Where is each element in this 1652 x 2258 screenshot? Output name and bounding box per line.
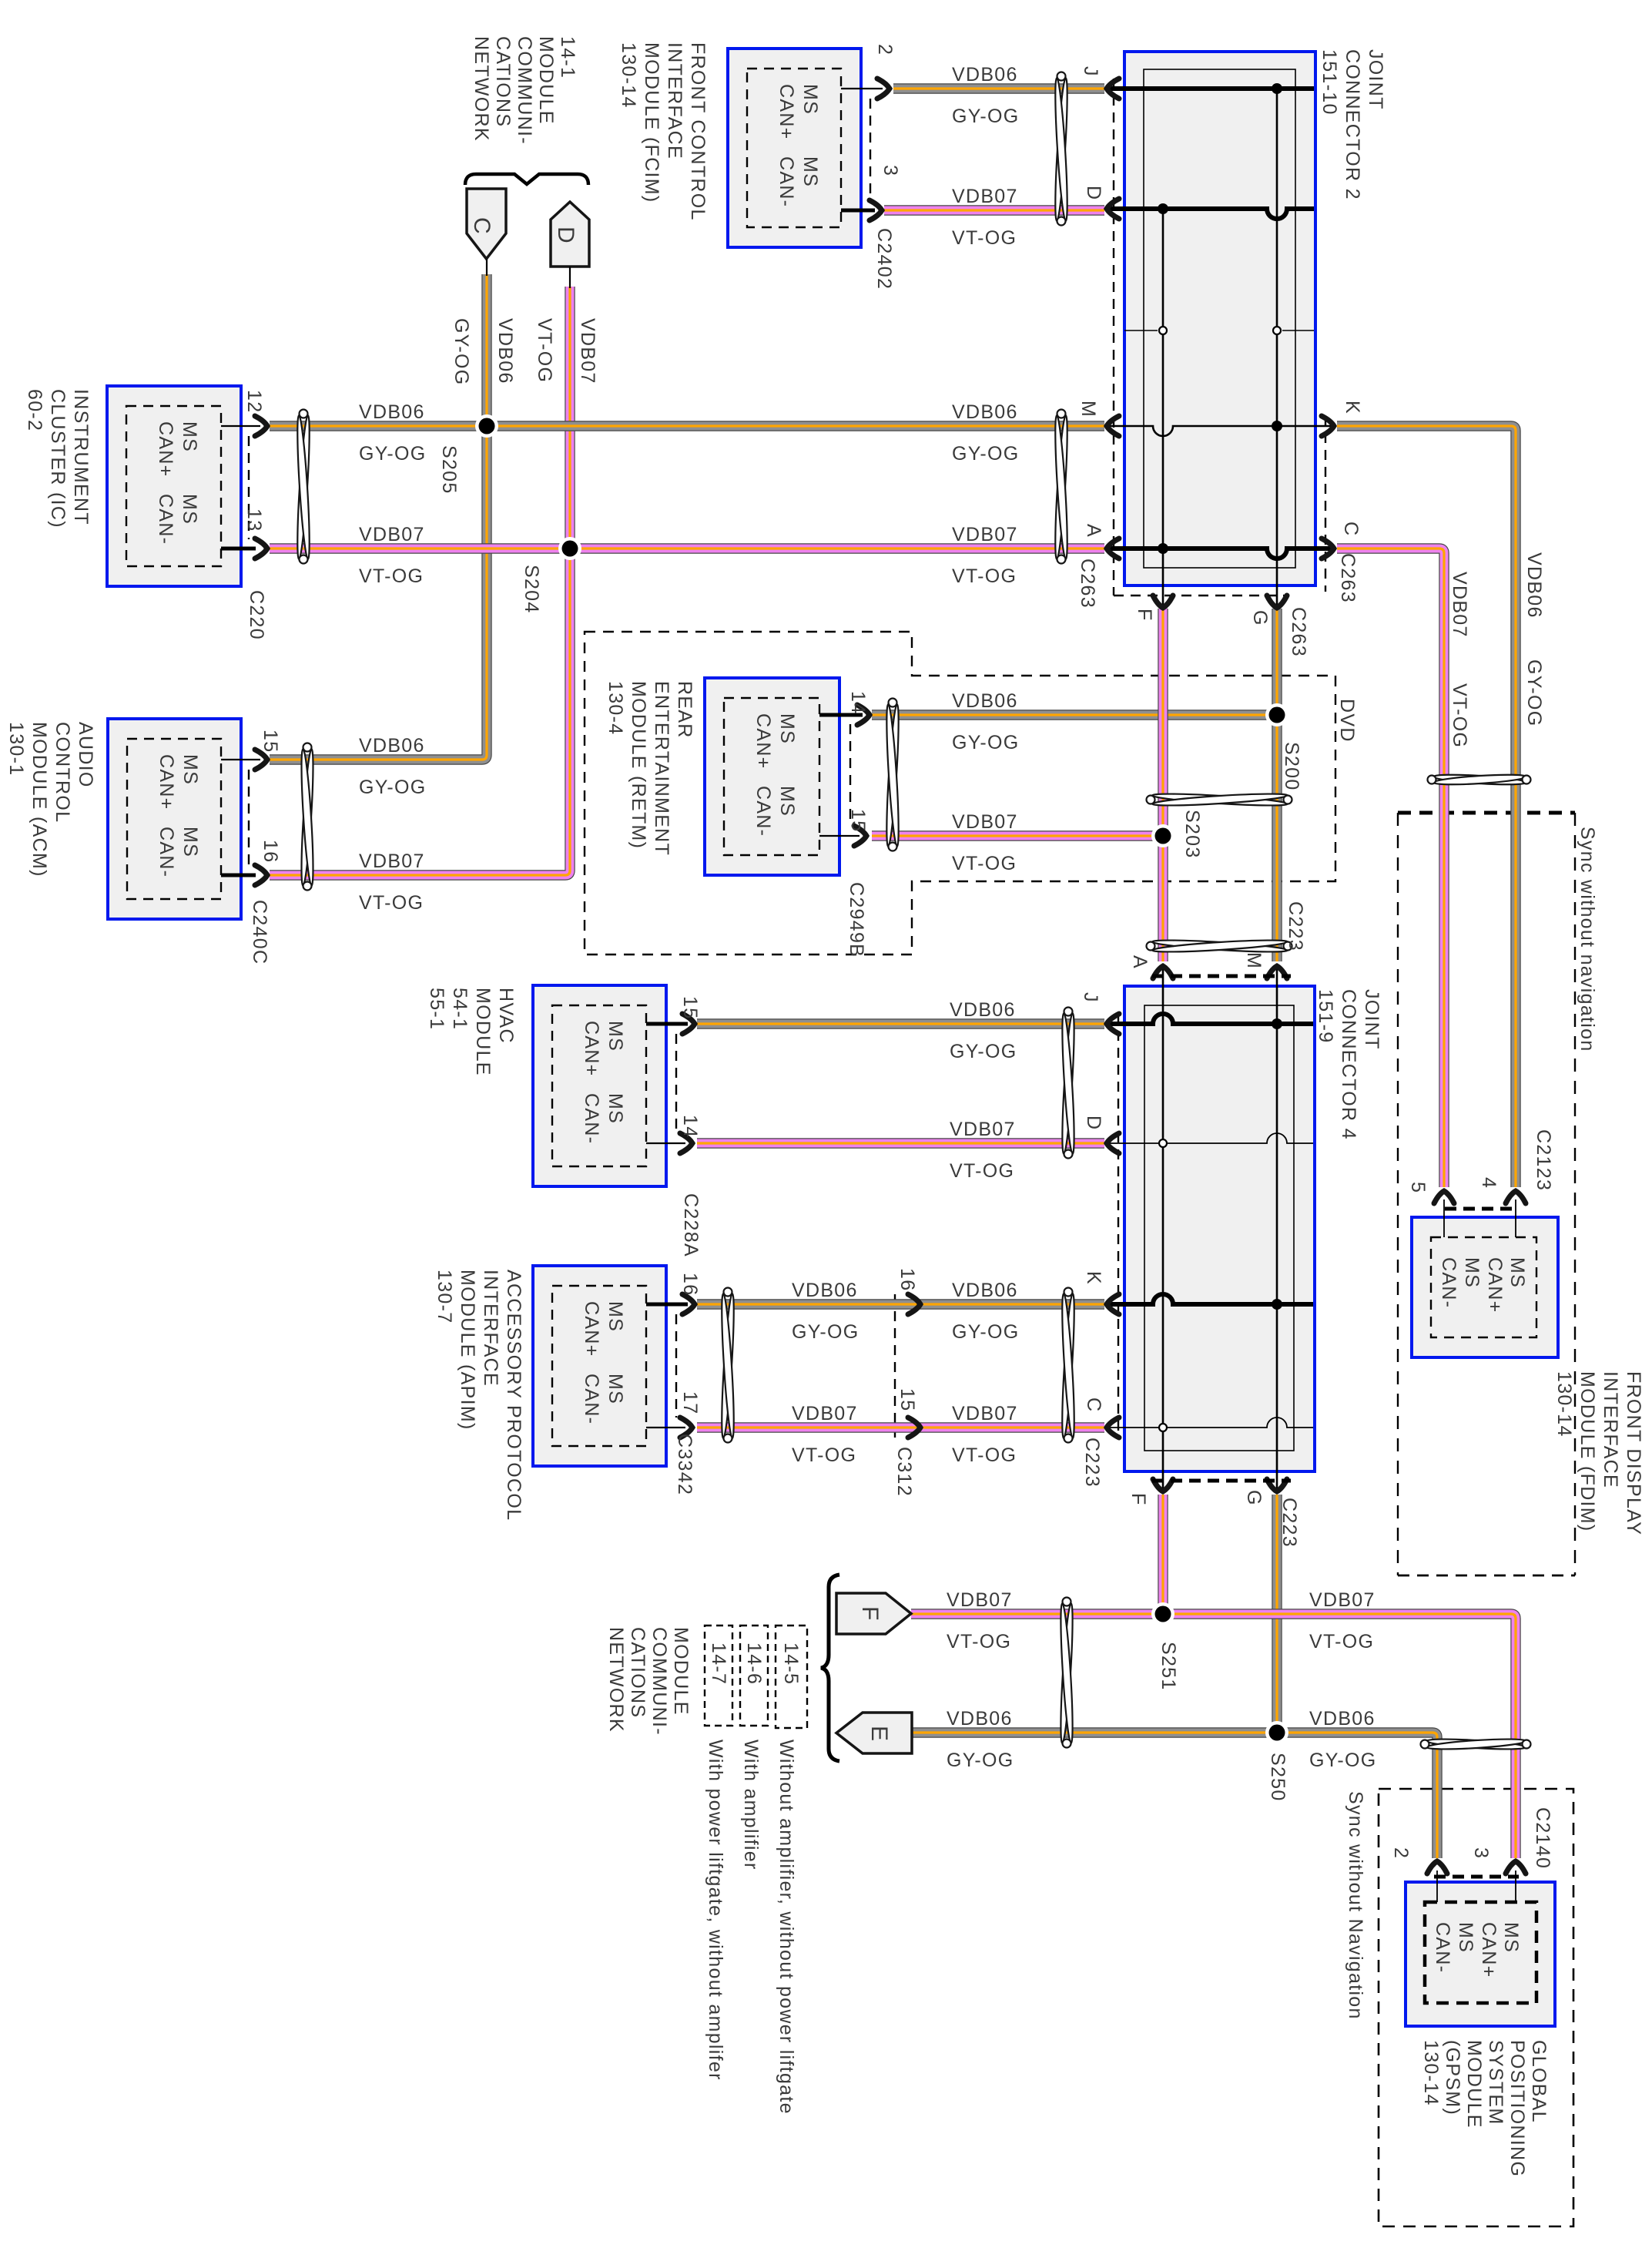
flag F	[836, 1593, 911, 1634]
svg-text:S205: S205	[438, 445, 460, 495]
twisted pair RETM	[884, 704, 901, 847]
svg-text:CAN-: CAN-	[1438, 1257, 1459, 1308]
svg-text:CAN+: CAN+	[156, 754, 177, 810]
svg-text:VDB06: VDB06	[792, 1280, 858, 1301]
twisted pair HVAC	[1060, 1013, 1076, 1154]
svg-text:INTERFACE: INTERFACE	[664, 42, 685, 159]
splice S204	[558, 537, 581, 560]
svg-text:CONNECTOR 4: CONNECTOR 4	[1338, 989, 1359, 1140]
svg-text:VDB06: VDB06	[952, 401, 1018, 423]
svg-text:With amplifier: With amplifier	[740, 1740, 762, 1870]
connector C2140 bold dashed	[1434, 1875, 1519, 1879]
svg-text:MODULE (FDIM): MODULE (FDIM)	[1577, 1371, 1598, 1532]
ACM pin16 stub	[221, 874, 256, 877]
module HVAC box	[533, 985, 666, 1186]
module FDIM box	[1412, 1217, 1558, 1357]
wire VDB06 GY-OG RETM pin14 to S200	[872, 710, 1277, 720]
C312 pin15 arrow	[908, 1418, 920, 1438]
svg-text:CAN+: CAN+	[581, 1021, 602, 1077]
svg-text:130-14: 130-14	[1553, 1371, 1575, 1438]
splice S200	[1265, 703, 1288, 726]
svg-text:CAN-: CAN-	[581, 1374, 602, 1424]
svg-text:15: 15	[847, 809, 869, 832]
svg-text:GY-OG: GY-OG	[952, 443, 1020, 465]
connector C263 dashed (JC2 left)	[1113, 79, 1114, 596]
svg-text:GY-OG: GY-OG	[792, 1321, 860, 1343]
module APIM box	[533, 1266, 666, 1466]
svg-text:ENTERTAINMENT: ENTERTAINMENT	[651, 681, 672, 856]
enclosure FDIM Sync-without-navigation dashed	[1398, 811, 1575, 815]
C312 pin16 arrow	[908, 1294, 920, 1314]
svg-text:GY-OG: GY-OG	[952, 1321, 1020, 1343]
svg-text:3: 3	[880, 165, 901, 176]
svg-text:60-2: 60-2	[24, 389, 45, 431]
svg-text:MS: MS	[799, 156, 821, 187]
svg-text:MS: MS	[776, 713, 798, 744]
JC4 row C ring	[1159, 1424, 1167, 1431]
svg-text:VDB07: VDB07	[952, 186, 1018, 207]
brace over flags C D	[465, 174, 588, 185]
svg-text:GY-OG: GY-OG	[451, 318, 472, 386]
connector C223 dashed (JC4 left)	[1118, 1014, 1119, 1438]
svg-text:130-14: 130-14	[618, 42, 639, 109]
svg-text:MODULE: MODULE	[670, 1627, 692, 1716]
svg-text:GY-OG: GY-OG	[359, 777, 427, 798]
svg-text:130-7: 130-7	[434, 1270, 455, 1324]
svg-text:MS: MS	[179, 494, 200, 525]
JC4 row C	[1106, 1418, 1313, 1428]
svg-text:F: F	[1128, 1493, 1149, 1506]
svg-text:NETWORK: NETWORK	[605, 1627, 627, 1733]
twisted pair flags F-E	[1058, 1603, 1074, 1743]
wire VDB06 GY-OG IC pin12 to JC2-M	[270, 421, 1104, 431]
svg-text:CATIONS: CATIONS	[492, 36, 514, 127]
JC4 pin arrows left	[1107, 1014, 1119, 1034]
svg-text:C2402: C2402	[873, 228, 895, 290]
svg-text:M: M	[1077, 401, 1099, 418]
svg-text:G: G	[1249, 610, 1271, 626]
wire VDB06 GY-OG JC2-G down to JC4-M	[1272, 609, 1282, 961]
JC4 right bus VDB06	[1276, 968, 1278, 1490]
svg-text:14: 14	[679, 1115, 701, 1138]
svg-text:JOINT: JOINT	[1365, 49, 1386, 110]
svg-text:MS: MS	[1506, 1257, 1528, 1288]
svg-text:C: C	[1083, 1397, 1104, 1412]
box 14-7 dashed	[705, 1626, 732, 1726]
svg-text:HVAC: HVAC	[495, 988, 517, 1044]
svg-text:GY-OG: GY-OG	[1523, 659, 1545, 727]
svg-text:JOINT: JOINT	[1361, 989, 1382, 1050]
wire VDB06 GY-OG flag E to GPSM pin2	[912, 1733, 1437, 1858]
svg-text:CAN+: CAN+	[1478, 1922, 1500, 1978]
module FCIM box	[728, 49, 861, 247]
box 14-5 dashed	[776, 1626, 807, 1728]
RETM pin15 stub	[819, 835, 860, 837]
svg-text:FRONT DISPLAY: FRONT DISPLAY	[1623, 1371, 1644, 1535]
svg-text:CONNECTOR 2: CONNECTOR 2	[1342, 49, 1363, 200]
svg-text:C240C: C240C	[249, 900, 270, 965]
svg-text:CAN+: CAN+	[752, 713, 774, 770]
svg-text:VT-OG: VT-OG	[792, 1444, 856, 1466]
svg-text:2: 2	[874, 44, 896, 55]
svg-text:VDB06: VDB06	[1309, 1708, 1376, 1730]
svg-text:VT-OG: VT-OG	[1309, 1631, 1374, 1652]
svg-text:14-5: 14-5	[780, 1642, 802, 1685]
wire VDB07 VT-OG JC4-F down to S251	[1158, 1495, 1168, 1614]
svg-text:VT-OG: VT-OG	[359, 892, 424, 914]
APIM pin17 stub	[646, 1427, 685, 1428]
svg-text:C2123: C2123	[1533, 1129, 1554, 1191]
svg-text:VDB06: VDB06	[952, 64, 1018, 86]
svg-text:151-9: 151-9	[1315, 989, 1336, 1043]
svg-text:G: G	[1243, 1490, 1265, 1506]
wire VDB06 GY-OG HVAC pin15 to JC4-J	[697, 1018, 1104, 1028]
twisted pair FCIM	[1053, 78, 1070, 221]
APIM pin16 stub	[646, 1303, 688, 1307]
svg-text:INSTRUMENT: INSTRUMENT	[70, 389, 92, 525]
svg-text:17: 17	[679, 1391, 701, 1414]
svg-text:GLOBAL: GLOBAL	[1528, 2040, 1550, 2123]
svg-text:15: 15	[896, 1388, 918, 1411]
JC4 C223 bold dashed bottom	[1152, 1479, 1291, 1483]
GPSM pin2 lead	[1436, 1870, 1438, 1902]
JC4 pin arrows top A M	[1153, 966, 1173, 978]
svg-text:MS: MS	[1500, 1922, 1522, 1953]
svg-text:C220: C220	[246, 590, 267, 640]
wire VDB07 VT-OG flag F to GPSM pin3	[911, 1614, 1516, 1858]
JC4 row J dot	[1272, 1018, 1282, 1029]
svg-text:14-7: 14-7	[708, 1642, 729, 1685]
svg-text:14-1: 14-1	[557, 36, 578, 79]
svg-text:A: A	[1083, 524, 1104, 538]
svg-text:VT-OG: VT-OG	[534, 318, 555, 383]
enclosure RETM+DVD dashed boundary	[585, 632, 1335, 955]
connector C228A dashed line	[675, 1034, 677, 1133]
svg-text:CAN-: CAN-	[581, 1093, 602, 1144]
svg-text:MODULE: MODULE	[535, 36, 557, 125]
svg-text:CAN-: CAN-	[155, 494, 176, 545]
svg-text:E: E	[866, 1726, 892, 1742]
svg-text:VDB06: VDB06	[950, 999, 1016, 1021]
twisted pair C312-JC4	[1060, 1293, 1077, 1438]
twisted pair ACM	[299, 749, 315, 886]
svg-text:16: 16	[260, 840, 281, 863]
svg-text:MS: MS	[179, 827, 201, 857]
svg-text:VT-OG: VT-OG	[359, 565, 424, 587]
box 14-6 dashed	[740, 1626, 768, 1726]
svg-text:F: F	[1134, 609, 1155, 622]
splice S205	[475, 414, 498, 438]
svg-text:Without amplifier, without pow: Without amplifier, without power liftgat…	[776, 1740, 797, 2115]
svg-text:S203: S203	[1181, 810, 1203, 859]
svg-text:S204: S204	[521, 565, 542, 614]
splice S251	[1151, 1602, 1174, 1626]
svg-text:(GPSM): (GPSM)	[1442, 2040, 1463, 2115]
JC2 row D dot	[1158, 203, 1168, 214]
JC4 row D ring	[1159, 1139, 1167, 1147]
JC4 row J	[1106, 1014, 1313, 1024]
IC pin13 stub	[221, 547, 256, 551]
connector C263 dashed (JC2 right)	[1325, 416, 1326, 592]
FDIM pin5 lead	[1443, 1199, 1445, 1237]
svg-text:VDB06: VDB06	[359, 401, 425, 423]
svg-text:MS: MS	[179, 754, 201, 785]
svg-text:ACCESSORY PROTOCOL: ACCESSORY PROTOCOL	[503, 1270, 524, 1521]
module RETM box	[705, 678, 839, 875]
svg-text:C223: C223	[1285, 901, 1306, 951]
svg-text:S200: S200	[1281, 742, 1302, 791]
connector C2402 dashed line	[870, 99, 871, 202]
svg-text:VDB06: VDB06	[359, 735, 425, 757]
svg-text:VDB06: VDB06	[952, 690, 1018, 712]
svg-text:VDB07: VDB07	[952, 524, 1018, 545]
svg-text:14: 14	[847, 691, 869, 714]
svg-text:151-10: 151-10	[1319, 49, 1340, 116]
svg-text:VT-OG: VT-OG	[952, 227, 1017, 249]
svg-text:MODULE: MODULE	[1463, 2040, 1485, 2129]
svg-text:GY-OG: GY-OG	[950, 1041, 1017, 1062]
svg-text:VDB07: VDB07	[1449, 572, 1470, 638]
wire VDB07 VT-OG JC2-C to FDIM pin5	[1337, 549, 1444, 1187]
JC2 row J dot	[1272, 83, 1282, 94]
svg-text:13: 13	[243, 508, 265, 532]
svg-text:C263: C263	[1288, 607, 1309, 657]
svg-text:VT-OG: VT-OG	[952, 565, 1017, 587]
flag C	[467, 189, 506, 259]
svg-text:CAN-: CAN-	[776, 156, 797, 207]
svg-text:C228A: C228A	[680, 1193, 702, 1257]
svg-text:K: K	[1083, 1271, 1104, 1285]
svg-text:130-14: 130-14	[1420, 2040, 1442, 2106]
twisted pair IC-JC2	[1053, 415, 1070, 559]
svg-text:POSITIONING: POSITIONING	[1506, 2040, 1528, 2177]
svg-text:COMMUNI-: COMMUNI-	[648, 1627, 670, 1736]
svg-text:SYSTEM: SYSTEM	[1485, 2040, 1506, 2125]
svg-text:VT-OG: VT-OG	[1449, 683, 1470, 748]
svg-text:MODULE (ACM): MODULE (ACM)	[28, 722, 50, 877]
JC4 row D	[1106, 1133, 1313, 1143]
svg-text:M: M	[1243, 952, 1265, 969]
svg-text:VT-OG: VT-OG	[947, 1631, 1011, 1652]
wire VDB07 VT-OG FCIM pin3 to JC2-D	[884, 205, 1104, 215]
svg-text:CAN-: CAN-	[156, 827, 177, 877]
svg-text:MS: MS	[179, 421, 200, 452]
svg-text:C263: C263	[1337, 553, 1359, 603]
svg-text:VDB07: VDB07	[952, 811, 1018, 833]
svg-text:VDB07: VDB07	[359, 524, 425, 545]
svg-text:C223: C223	[1081, 1438, 1103, 1488]
svg-text:CLUSTER (IC): CLUSTER (IC)	[47, 389, 69, 528]
svg-text:MODULE (FCIM): MODULE (FCIM)	[641, 42, 662, 203]
FCIM pin2 stub	[841, 88, 883, 89]
svg-text:VDB07: VDB07	[359, 851, 425, 872]
wire VDB06 GY-OG JC2-K to FDIM pin4	[1337, 426, 1516, 1187]
svg-text:F: F	[857, 1606, 883, 1622]
svg-text:J: J	[1080, 66, 1101, 77]
svg-text:D: D	[1083, 1116, 1104, 1130]
JC4 row K	[1106, 1294, 1313, 1304]
HVAC pin15 stub	[646, 1022, 688, 1026]
svg-text:CAN+: CAN+	[581, 1301, 602, 1357]
FCIM pin3 stub	[841, 209, 875, 213]
svg-text:CAN+: CAN+	[1484, 1257, 1506, 1314]
JC2 row D	[1106, 209, 1314, 219]
svg-text:DVD: DVD	[1336, 699, 1358, 743]
ACM pin15 stub	[221, 759, 260, 760]
connector C2949B dashed line	[849, 724, 851, 826]
connector C220 dashed line	[248, 436, 250, 539]
svg-text:C3342: C3342	[674, 1434, 695, 1495]
svg-text:GY-OG: GY-OG	[1309, 1750, 1377, 1771]
svg-text:CAN+: CAN+	[776, 84, 797, 140]
svg-text:15: 15	[679, 996, 701, 1019]
svg-text:MS: MS	[799, 84, 821, 115]
twisted pair above JC4	[1152, 938, 1288, 954]
RETM pin14 stub	[819, 713, 863, 717]
JC2 row A	[1106, 549, 1332, 559]
svg-text:VT-OG: VT-OG	[952, 853, 1017, 874]
svg-text:4: 4	[1478, 1177, 1500, 1189]
svg-text:GY-OG: GY-OG	[952, 106, 1020, 127]
svg-text:14-6: 14-6	[743, 1642, 765, 1685]
svg-text:C2140: C2140	[1532, 1807, 1553, 1869]
svg-text:INTERFACE: INTERFACE	[480, 1270, 501, 1387]
svg-text:16: 16	[896, 1268, 918, 1291]
flag D	[551, 202, 589, 267]
svg-text:54-1: 54-1	[449, 988, 471, 1030]
svg-text:AUDIO: AUDIO	[75, 722, 96, 788]
twisted pair IC	[295, 415, 312, 559]
twisted pair DVD verticals	[1152, 791, 1288, 807]
svg-text:MS: MS	[605, 1374, 626, 1404]
GPSM pin3 lead	[1515, 1870, 1516, 1902]
enclosure GPSM Sync-without-Navigation dashed	[1379, 1789, 1573, 2226]
JC2 row M dot	[1272, 421, 1282, 431]
svg-text:C263: C263	[1077, 559, 1098, 609]
svg-text:12: 12	[243, 390, 265, 413]
wire VDB07 VT-OG IC pin13 to JC2-A	[270, 543, 1104, 553]
svg-text:MS: MS	[1461, 1257, 1483, 1288]
svg-text:5: 5	[1407, 1182, 1429, 1193]
wire VDB07 VT-OG RETM pin15 to S203	[872, 830, 1163, 840]
JC2 row J	[1106, 86, 1314, 91]
module Instrument Cluster box	[107, 386, 241, 586]
svg-text:COMMUNI-: COMMUNI-	[514, 36, 535, 145]
connector C3342 dashed line	[675, 1314, 677, 1418]
svg-text:Sync without Navigation: Sync without Navigation	[1345, 1791, 1366, 2020]
connector C312 dashed line	[894, 1294, 896, 1438]
JC4 row K dot	[1272, 1299, 1282, 1310]
svg-text:S250: S250	[1267, 1753, 1288, 1802]
svg-text:INTERFACE: INTERFACE	[1600, 1371, 1621, 1488]
svg-text:VDB07: VDB07	[950, 1119, 1016, 1140]
wire VDB07 VT-OG from flag D down to ACM pin16	[270, 287, 570, 875]
svg-text:GY-OG: GY-OG	[359, 443, 427, 465]
svg-text:C: C	[1340, 522, 1362, 536]
svg-text:MS: MS	[776, 786, 798, 817]
svg-text:VDB06: VDB06	[952, 1280, 1018, 1301]
connector C2123 bold dashed	[1445, 1207, 1519, 1211]
svg-text:130-1: 130-1	[5, 722, 27, 776]
svg-text:MODULE: MODULE	[472, 988, 494, 1076]
svg-text:C: C	[469, 217, 494, 235]
svg-text:VDB06: VDB06	[494, 318, 516, 384]
JC4 left bus VDB07	[1162, 968, 1164, 1490]
JC2 pin arrows right K C	[1322, 416, 1334, 436]
svg-text:MODULE (APIM): MODULE (APIM)	[457, 1270, 478, 1431]
JC2 unused pin stubs	[1124, 330, 1158, 331]
svg-text:CONTROL: CONTROL	[52, 722, 73, 823]
JC4 C223 bold dashed top	[1152, 975, 1291, 978]
svg-text:J: J	[1080, 992, 1101, 1003]
svg-text:MS: MS	[605, 1301, 626, 1332]
svg-text:VDB06: VDB06	[1523, 552, 1545, 619]
wire VDB06 GY-OG JC4-G down to S250	[1272, 1495, 1282, 1733]
wire VDB07 VT-OG JC2-F down to JC4-A	[1158, 609, 1168, 961]
svg-text:VT-OG: VT-OG	[952, 1444, 1017, 1466]
svg-text:D: D	[1083, 186, 1104, 200]
wire VDB07 VT-OG HVAC pin14 to JC4-D	[697, 1138, 1104, 1148]
svg-text:With power liftgate, without a: With power liftgate, without amplifer	[705, 1740, 726, 2081]
svg-text:55-1: 55-1	[426, 988, 447, 1030]
JC4 pin arrows bottom F G	[1153, 1479, 1173, 1491]
svg-text:FRONT CONTROL: FRONT CONTROL	[687, 42, 709, 221]
connector C240C dashed line	[248, 770, 250, 866]
svg-text:S251: S251	[1158, 1642, 1179, 1691]
splice S250	[1265, 1721, 1288, 1744]
JC2 unused pin rings	[1159, 327, 1167, 334]
svg-text:GY-OG: GY-OG	[947, 1750, 1014, 1771]
svg-text:CATIONS: CATIONS	[627, 1627, 648, 1718]
svg-text:K: K	[1342, 401, 1363, 414]
svg-text:16: 16	[679, 1273, 701, 1296]
svg-text:GY-OG: GY-OG	[952, 732, 1020, 753]
svg-text:3: 3	[1470, 1847, 1492, 1859]
svg-text:NETWORK: NETWORK	[471, 36, 492, 142]
svg-text:MS: MS	[1455, 1922, 1476, 1953]
svg-text:C2949B: C2949B	[846, 882, 867, 958]
JC2 pin arrows bottom F G	[1153, 596, 1173, 608]
wire VDB07 VT-OG APIM pin17 to JC4-C	[697, 1422, 1104, 1432]
svg-text:A: A	[1129, 955, 1151, 969]
brace left of flags F E	[821, 1575, 839, 1761]
svg-text:C223: C223	[1278, 1498, 1300, 1548]
module ACM box	[108, 719, 241, 919]
svg-text:MODULE (RETM): MODULE (RETM)	[628, 681, 649, 849]
svg-text:130-4: 130-4	[605, 681, 626, 735]
twisted pair FDIM verticals	[1433, 773, 1526, 787]
svg-text:MS: MS	[605, 1021, 626, 1052]
joint connector 2 box	[1124, 52, 1315, 585]
svg-text:VDB07: VDB07	[792, 1403, 858, 1424]
flag E	[836, 1713, 912, 1753]
svg-text:VDB07: VDB07	[952, 1403, 1018, 1424]
module GPSM box	[1406, 1882, 1555, 2026]
svg-text:VDB07: VDB07	[947, 1589, 1013, 1611]
JC2 row M	[1106, 426, 1332, 436]
svg-text:2: 2	[1390, 1847, 1412, 1859]
wire VDB06 GY-OG FCIM pin2 to JC2-J	[893, 83, 1104, 93]
svg-text:VDB07: VDB07	[1309, 1589, 1376, 1611]
svg-text:CAN-: CAN-	[752, 786, 774, 837]
svg-text:Sync without navigation: Sync without navigation	[1577, 827, 1598, 1052]
svg-text:MS: MS	[605, 1093, 626, 1124]
svg-text:VDB07: VDB07	[577, 318, 598, 384]
twisted pair GPSM verticals	[1426, 1737, 1526, 1751]
JC2 right bus VDB06	[1276, 89, 1278, 609]
wire VDB06 GY-OG from flag C down to ACM pin15	[270, 274, 487, 760]
svg-text:CAN-: CAN-	[1432, 1922, 1453, 1973]
